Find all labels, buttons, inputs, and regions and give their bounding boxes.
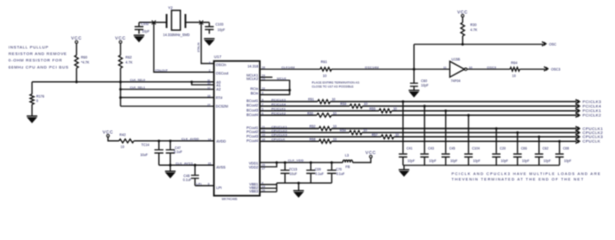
ground (C102) (134, 34, 145, 36)
wire left leg to OSCout (154, 22, 214, 72)
wire C104 drop (468, 115, 470, 153)
junction R62/line (119, 81, 122, 84)
svg-text:10pF: 10pF (421, 84, 429, 88)
wire C45 drop (445, 111, 447, 153)
svg-text:10: 10 (364, 102, 368, 106)
svg-text:0.1uF: 0.1uF (336, 172, 344, 176)
wire buffer output (467, 68, 510, 70)
svg-text:10pF: 10pF (473, 159, 480, 163)
junction branch (190, 81, 193, 84)
svg-text:PCICLK2: PCICLK2 (272, 112, 286, 116)
svg-text:C43: C43 (428, 146, 434, 150)
svg-text:R51: R51 (308, 98, 314, 102)
svg-text:BCout4: BCout4 (247, 113, 259, 117)
IC U17 body (214, 61, 260, 196)
wire AVSS to ground (169, 165, 171, 171)
capacitor C45 10pF (442, 152, 450, 155)
junction TC15/VDD (284, 161, 287, 164)
wire right leg to OSCin (201, 22, 214, 63)
svg-text:L3: L3 (345, 154, 349, 158)
wire VBB bracket (260, 183, 277, 192)
capacitor C47 0.1uF (166, 141, 175, 150)
svg-text:XTALIN: XTALIN (196, 43, 200, 53)
capacitor C20 10pF (492, 152, 500, 155)
svg-text:14.318: 14.318 (247, 64, 258, 68)
wire RT# line (121, 97, 214, 99)
svg-text:10: 10 (332, 98, 336, 102)
svg-text:R176: R176 (36, 94, 44, 98)
connector CPUCLK (578, 139, 581, 143)
svg-text:MCLK: MCLK (277, 77, 287, 81)
svg-text:OSC: OSC (549, 42, 557, 46)
svg-text:LPI: LPI (196, 182, 201, 186)
svg-text:CLK_SEL0: CLK_SEL0 (130, 78, 145, 82)
svg-text:VBB3: VBB3 (249, 190, 258, 194)
wire PCout4 net CPUCLK (260, 140, 319, 142)
resistor R62 4.7K (119, 55, 123, 68)
svg-text:MK74C485: MK74C485 (222, 197, 238, 201)
svg-text:C104: C104 (472, 146, 480, 150)
ground (AVSS) (165, 170, 176, 172)
svg-text:AVSS: AVSS (216, 165, 226, 169)
wire C41 drop (402, 102, 404, 154)
svg-text:R52: R52 (310, 125, 316, 129)
svg-text:66MHz CPU AND PCI BUS: 66MHz CPU AND PCI BUS (9, 64, 69, 69)
capacitor C41 10pF (399, 152, 407, 155)
wire AVSS line (159, 164, 214, 166)
svg-text:U15B: U15B (452, 58, 461, 62)
svg-text:VCC: VCC (103, 129, 114, 134)
svg-text:VDD2: VDD2 (249, 166, 258, 170)
svg-text:10pF: 10pF (450, 159, 457, 163)
note: thevenin termination text (452, 172, 602, 182)
wire C68 drop (559, 141, 561, 153)
svg-text:CPUCLK: CPUCLK (583, 139, 601, 144)
ground (R176) (27, 115, 38, 117)
wire select line A0 (32, 81, 214, 83)
wire DCS2M line (121, 105, 214, 107)
svg-text:10: 10 (207, 81, 211, 85)
wire OSC pullup line (414, 43, 543, 45)
connector OSC (544, 42, 547, 46)
wire up to pullup line (413, 44, 415, 69)
svg-text:10: 10 (333, 125, 337, 129)
capacitor C104 10pF (464, 152, 472, 155)
connector CPUCLK3 (578, 135, 581, 139)
svg-text:R62: R62 (126, 56, 132, 60)
svg-text:C66: C66 (521, 146, 527, 150)
svg-text:14.318MHz_SMD: 14.318MHz_SMD (163, 33, 190, 37)
wire C66 drop (517, 133, 519, 154)
svg-text:TC14: TC14 (141, 143, 149, 147)
svg-text:11: 11 (443, 65, 446, 69)
junction x left leg (152, 20, 156, 24)
wire PCout2 net CPUCLK2 (260, 132, 350, 134)
wire branch to pin 10 (A1) (192, 82, 214, 85)
wire VCC to R30 (462, 17, 464, 23)
svg-text:CLK_AVSS: CLK_AVSS (176, 161, 193, 165)
svg-text:AVDD: AVDD (216, 139, 226, 143)
svg-text:PCICLK2: PCICLK2 (583, 113, 602, 118)
wire PCout3 net CPUCLK3 (260, 136, 381, 138)
junction R62 col/A2 (119, 88, 122, 91)
svg-text:U17: U17 (214, 54, 222, 59)
svg-text:R57: R57 (372, 133, 378, 137)
svg-text:C62: C62 (543, 146, 549, 150)
resistor R42 10 (119, 139, 134, 143)
wire VDD2 bracket (260, 163, 277, 167)
resistor R61 10 (320, 67, 331, 71)
wire C48 to LPI (195, 185, 214, 187)
wire R62 column down (120, 68, 122, 106)
svg-text:CLOSE TO U17 AS POSSIBLE: CLOSE TO U17 AS POSSIBLE (312, 85, 354, 89)
svg-text:10pF: 10pF (564, 159, 571, 163)
wire R30 down (462, 36, 464, 44)
capacitor C69 0.1uF (306, 163, 315, 171)
svg-text:FB: FB (346, 165, 351, 169)
wire VDD ground rail (277, 182, 332, 184)
ground (C103) (204, 38, 215, 40)
capacitor C48 0.1uF (191, 165, 199, 175)
junction C47/AVDD (169, 140, 172, 143)
resistor R176 0 ohm (30, 94, 34, 104)
svg-text:27: 27 (207, 103, 211, 107)
crystal Y2 body (172, 10, 181, 30)
svg-text:4.7K: 4.7K (470, 28, 478, 32)
svg-text:OSCin: OSCin (216, 63, 226, 67)
svg-text:MCLK2: MCLK2 (247, 77, 259, 81)
connector CPUCLK2 (578, 130, 581, 134)
svg-text:A2: A2 (216, 88, 220, 92)
svg-text:PCout3: PCout3 (247, 134, 259, 138)
junction C69/VDD (310, 161, 313, 164)
svg-text:RT#: RT# (216, 96, 223, 100)
svg-text:C20: C20 (500, 146, 506, 150)
svg-text:C68: C68 (563, 146, 569, 150)
svg-text:PCICLK AND CPUCLK3 HAVE MULTIP: PCICLK AND CPUCLK3 HAVE MULTIPLE LOADS A… (452, 172, 602, 176)
capacitor C60 10pF (410, 69, 418, 83)
capacitor C68 10pF (555, 152, 563, 155)
wire BCout2 net PCICLK4 (260, 105, 350, 107)
capacitor C43 10pF (420, 152, 428, 155)
crystal left plate (166, 14, 168, 28)
svg-text:C103: C103 (216, 23, 224, 27)
wire BCout3 net PCICLK1 (260, 110, 379, 112)
svg-text:R55: R55 (370, 107, 376, 111)
wire crystal left (139, 21, 167, 23)
junction x right leg (199, 20, 203, 24)
junction C43/PCICLK4 (423, 105, 426, 108)
svg-text:PCICLK1: PCICLK1 (272, 107, 286, 111)
svg-text:10: 10 (333, 137, 337, 141)
svg-text:LPI: LPI (216, 186, 221, 190)
junction R62 col/RT (119, 96, 122, 99)
connector PCICLK4 (578, 104, 581, 108)
wire R61 to buffer (332, 68, 450, 70)
svg-text:OSC3: OSC3 (487, 66, 496, 70)
svg-text:CPUCLK3: CPUCLK3 (272, 133, 288, 137)
svg-text:R58: R58 (310, 137, 316, 141)
svg-text:R61: R61 (321, 60, 327, 64)
crystal right plate (184, 14, 186, 28)
svg-text:4.7K: 4.7K (126, 61, 134, 65)
svg-text:PCICLK4: PCICLK4 (272, 102, 286, 106)
junction gnd/AVSS (169, 164, 172, 167)
svg-text:XTALOUT: XTALOUT (155, 68, 168, 72)
svg-text:C60: C60 (421, 79, 427, 83)
svg-text:CLK_VDD: CLK_VDD (288, 159, 304, 163)
connector PCICLK2 (578, 113, 581, 117)
svg-text:10pF: 10pF (501, 159, 508, 163)
svg-text:10pF: 10pF (408, 159, 415, 163)
svg-text:R64: R64 (511, 61, 517, 65)
note: install pullup instruction text (9, 44, 69, 69)
wire R64 to connector (520, 68, 545, 70)
svg-text:CPUCLK: CPUCLK (272, 138, 286, 142)
wire C62 drop (538, 137, 540, 153)
wire AVDD line (134, 140, 214, 142)
svg-text:VCC: VCC (115, 36, 126, 41)
svg-text:VCC: VCC (365, 150, 376, 155)
svg-text:C45: C45 (449, 146, 455, 150)
junction C62/CPUCLK3 (538, 136, 541, 139)
connector CPUCLK1 (578, 126, 581, 130)
wire PCout1 net CPUCLK1 (260, 128, 319, 130)
svg-text:10uF: 10uF (290, 172, 298, 176)
svg-text:10pF: 10pF (429, 159, 436, 163)
capacitor C103 (205, 22, 214, 26)
wire VCC to R60 (76, 43, 78, 55)
junction C41/PCICLK3 (402, 100, 405, 103)
ground (C60) (409, 89, 420, 91)
svg-text:OSC14M: OSC14M (365, 66, 379, 70)
svg-text:VCC: VCC (457, 9, 468, 14)
capacitor C66 10pF (513, 152, 521, 155)
wire VCC to R62 (120, 43, 122, 55)
svg-text:RCin: RCin (250, 87, 258, 91)
svg-text:10: 10 (512, 74, 516, 78)
svg-text:0-OHM RESISTOR FOR: 0-OHM RESISTOR FOR (9, 58, 63, 63)
svg-text:10pF: 10pF (142, 30, 150, 34)
svg-text:10pF: 10pF (544, 159, 551, 163)
svg-text:13: 13 (207, 94, 211, 98)
junction VDD2/rail (275, 161, 278, 164)
ground (VDD) (293, 190, 304, 192)
ground (cap banks) (399, 169, 410, 171)
wire R176 to ground (31, 104, 33, 116)
svg-text:THEVENIN TERMINATED AT THE END: THEVENIN TERMINATED AT THE END OF THE NE… (452, 178, 585, 182)
svg-text:OSCout: OSCout (216, 71, 228, 75)
svg-text:INSTALL PULLUP: INSTALL PULLUP (9, 44, 49, 49)
svg-text:74F04: 74F04 (451, 79, 461, 83)
junction C48/AVSS (194, 164, 197, 167)
wire C43 drop (424, 106, 426, 153)
svg-text:RESISTOR AND REMOVE: RESISTOR AND REMOVE (9, 51, 68, 56)
connector OSC3 (546, 67, 549, 71)
junction C68/CPUCLK (558, 140, 561, 143)
svg-text:BCin: BCin (251, 92, 259, 96)
connector PCICLK3 (578, 99, 581, 103)
svg-text:CLK_AVDD: CLK_AVDD (181, 137, 199, 141)
junction C104/PCICLK2 (467, 114, 470, 117)
junction R30/line (461, 43, 464, 46)
wire cap bank ground rail (403, 164, 560, 166)
svg-text:0.1uF: 0.1uF (315, 172, 323, 176)
svg-text:10pF: 10pF (522, 159, 529, 163)
svg-text:Y2: Y2 (168, 6, 173, 10)
svg-text:10: 10 (121, 145, 125, 149)
junction R60/line (75, 81, 78, 84)
resistor R64 10 (510, 67, 520, 71)
wire BCout4 net PCICLK2 (260, 114, 317, 116)
svg-text:BCout2: BCout2 (247, 104, 259, 108)
junction C70/VDD (330, 161, 333, 164)
resistor R60 *4.7K (75, 55, 79, 68)
wire MCLK2 to BCin wrap (260, 80, 290, 94)
svg-text:OSC3: OSC3 (551, 67, 560, 71)
capacitor C62 10pF (535, 152, 543, 155)
wire 14.318 from U17 (260, 68, 320, 70)
svg-text:PCICLK3: PCICLK3 (272, 98, 286, 102)
wire C20 drop (495, 129, 497, 154)
wire crystal right (185, 21, 209, 23)
svg-text:BCout3: BCout3 (247, 108, 259, 112)
svg-text:CLK14M: CLK14M (282, 65, 295, 69)
capacitor TC15 10uF (281, 163, 290, 171)
svg-text:10: 10 (333, 111, 337, 115)
svg-text:DCS2M: DCS2M (216, 105, 228, 109)
svg-text:0.1uF: 0.1uF (174, 150, 182, 154)
junction RCin/wrap (288, 89, 291, 92)
svg-text:12: 12 (207, 86, 211, 90)
svg-text:VCC: VCC (71, 36, 82, 41)
junction TC14/AVDD (158, 140, 161, 143)
capacitor TC14 10uF (154, 141, 163, 150)
svg-text:C102: C102 (141, 22, 149, 26)
wire to ground (VDD) (298, 183, 300, 191)
inductor L3 FB (343, 160, 353, 162)
svg-text:R42: R42 (120, 133, 126, 137)
capacitor C102 (135, 22, 144, 26)
svg-text:0: 0 (36, 99, 38, 103)
svg-text:C41: C41 (407, 146, 413, 150)
svg-text:R50: R50 (307, 111, 313, 115)
wire down to R176 (31, 82, 33, 94)
resistor R30 4.7K (461, 23, 465, 37)
svg-text:R30: R30 (470, 23, 476, 27)
connector PCICLK1 (578, 109, 581, 113)
svg-text:R53: R53 (340, 102, 346, 106)
wire R60 to select line (76, 68, 78, 82)
svg-text:10pF: 10pF (218, 28, 226, 32)
svg-text:*4.7K: *4.7K (81, 61, 90, 65)
wire A2 line (121, 88, 214, 90)
buffer U15B 74F04 (450, 61, 465, 77)
svg-text:10: 10 (395, 133, 399, 137)
svg-text:CLK_SEL1: CLK_SEL1 (130, 85, 145, 89)
capacitor C70 0.1uF (327, 163, 336, 171)
junction C66/CPUCLK2 (516, 131, 519, 134)
wire MCLK1 stub (260, 76, 273, 78)
svg-text:10uF: 10uF (140, 153, 148, 157)
wire rail to ground (403, 165, 405, 169)
svg-text:0.1uF: 0.1uF (183, 178, 191, 182)
wire VCC to R42 (108, 137, 119, 141)
junction C20/CPUCLK1 (495, 127, 498, 130)
svg-text:R60: R60 (81, 56, 87, 60)
junction C45/PCICLK1 (444, 110, 447, 113)
svg-text:10: 10 (363, 129, 367, 133)
wire BCout1 net PCICLK3 (260, 101, 318, 103)
wire RCin (260, 89, 290, 91)
svg-text:10: 10 (393, 107, 397, 111)
wire VDD rail (260, 162, 343, 164)
svg-text:BCout1: BCout1 (247, 99, 259, 103)
svg-text:PCout4: PCout4 (247, 139, 259, 143)
note: place termination text (312, 81, 360, 89)
svg-text:R54: R54 (340, 129, 346, 133)
svg-text:10: 10 (323, 74, 327, 78)
junction gnd drop (297, 182, 300, 185)
wire L3 to VCC (353, 158, 371, 163)
junction at C60 (413, 68, 416, 71)
